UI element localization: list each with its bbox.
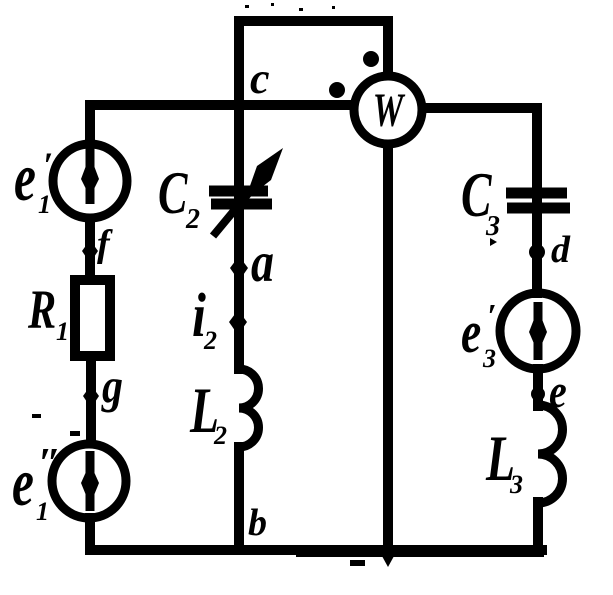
svg-text:c: c xyxy=(250,54,270,103)
source e1'' xyxy=(52,444,126,518)
wire left branch top xyxy=(85,105,95,143)
node f xyxy=(82,240,98,263)
label e1'' xyxy=(12,441,61,526)
label C3 xyxy=(461,160,500,242)
label L2 xyxy=(189,375,227,450)
inductor L3 xyxy=(538,405,563,503)
node e xyxy=(531,387,545,401)
svg-text:″: ″ xyxy=(38,441,61,487)
svg-text:e: e xyxy=(12,444,34,519)
node a (arrow on wire) xyxy=(230,256,248,281)
svg-text:′: ′ xyxy=(487,298,497,335)
wire bottom horizontal xyxy=(90,545,542,555)
wattmeter dot upper xyxy=(363,51,379,67)
label i2 xyxy=(192,282,217,355)
wattmeter W xyxy=(354,76,422,144)
wire middle branch lower xyxy=(234,447,244,550)
inductor L2 xyxy=(239,369,259,447)
svg-text:g: g xyxy=(101,359,123,412)
wire middle branch upper xyxy=(234,106,244,369)
wire right branch between C3 and e3' xyxy=(532,203,542,293)
label e3' xyxy=(461,298,497,373)
wire bottom horizontal thickening right half xyxy=(300,549,540,557)
svg-text:1: 1 xyxy=(36,497,49,526)
svg-text:W: W xyxy=(373,84,406,137)
svg-text:b: b xyxy=(248,502,267,544)
wire right branch between e3' and L3 xyxy=(533,369,543,406)
wattmeter branch arrowhead xyxy=(377,547,399,567)
wire left branch between e1' and R1 xyxy=(85,219,95,277)
svg-text:d: d xyxy=(551,229,571,271)
capacitor C3 xyxy=(506,193,570,208)
svg-text:2: 2 xyxy=(185,204,200,235)
resistor R1 xyxy=(75,280,110,356)
node d xyxy=(529,244,545,260)
label R1 xyxy=(27,279,69,346)
svg-text:1: 1 xyxy=(38,190,51,219)
svg-text:3: 3 xyxy=(509,470,523,499)
wire top horizontal left (node c line) xyxy=(90,100,352,110)
svg-text:e: e xyxy=(14,139,36,214)
svg-text:2: 2 xyxy=(213,421,227,450)
wire right branch bottom xyxy=(533,502,543,550)
node g xyxy=(83,385,99,408)
current arrow i2 xyxy=(229,310,247,335)
wire top rectangle loop c to wattmeter xyxy=(239,21,388,106)
wire wattmeter bottom xyxy=(383,147,393,552)
svg-text:a: a xyxy=(251,231,274,294)
svg-text:2: 2 xyxy=(203,326,217,355)
wire top horizontal right of wattmeter xyxy=(425,108,537,195)
svg-text:f: f xyxy=(97,223,113,265)
wire left branch between R1 and e1'' xyxy=(86,359,96,442)
svg-text:1: 1 xyxy=(56,317,69,346)
capacitor C2 (variable) xyxy=(209,148,283,236)
svg-text:3: 3 xyxy=(485,211,500,242)
source e3' xyxy=(500,293,576,369)
source e1' xyxy=(53,144,127,218)
svg-text:C: C xyxy=(158,161,188,227)
label e1' xyxy=(14,139,53,219)
wattmeter dot lower xyxy=(329,82,345,98)
wire left branch bottom xyxy=(85,518,95,550)
svg-text:R: R xyxy=(27,279,56,341)
svg-text:3: 3 xyxy=(482,344,496,373)
label L3 xyxy=(485,423,523,499)
svg-text:e: e xyxy=(461,299,481,365)
svg-text:′: ′ xyxy=(43,145,53,185)
label C2 xyxy=(158,161,200,235)
